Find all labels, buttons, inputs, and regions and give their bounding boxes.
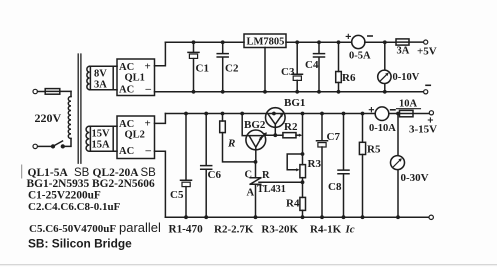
bridge rectifier QL1 bbox=[117, 59, 155, 96]
svg-text:C: C bbox=[245, 170, 253, 181]
svg-text:AC: AC bbox=[119, 85, 134, 96]
wire bbox=[70, 91, 72, 96]
ammeter PA1 0-5A bbox=[346, 34, 372, 61]
wire mid rail bbox=[165, 113, 375, 115]
220V label bbox=[35, 111, 62, 125]
svg-text:0-5A: 0-5A bbox=[349, 51, 371, 62]
svg-text:C6: C6 bbox=[208, 169, 222, 181]
terminal +5V bbox=[417, 40, 437, 58]
svg-text:C4: C4 bbox=[305, 59, 319, 71]
wire bbox=[389, 113, 400, 115]
svg-text:R5: R5 bbox=[367, 144, 381, 156]
terminal AC input bottom bbox=[33, 144, 37, 148]
wire bbox=[38, 145, 52, 147]
wire bbox=[64, 139, 71, 147]
svg-text:C7: C7 bbox=[327, 131, 341, 143]
wire top rail right of regulator bbox=[286, 41, 352, 43]
svg-text:C1: C1 bbox=[196, 63, 209, 75]
svg-text:+5V: +5V bbox=[417, 46, 437, 58]
svg-text:QL1: QL1 bbox=[125, 73, 145, 84]
wire bbox=[89, 65, 117, 67]
svg-text:C5: C5 bbox=[170, 189, 184, 201]
svg-text:LM7805: LM7805 bbox=[247, 37, 285, 48]
wire QL2 minus riser bbox=[155, 151, 166, 217]
svg-text:220V: 220V bbox=[35, 111, 62, 125]
svg-text:C3: C3 bbox=[281, 66, 295, 78]
svg-text:A: A bbox=[247, 188, 255, 199]
wire QL2 plus riser bbox=[155, 114, 166, 124]
notes text block bbox=[27, 167, 355, 251]
resistor R4 bbox=[286, 197, 306, 219]
svg-text:R4-1K: R4-1K bbox=[310, 224, 342, 236]
terminal minus 15V bbox=[429, 215, 433, 219]
svg-text:parallel: parallel bbox=[119, 220, 161, 235]
svg-text:R2-2.7K: R2-2.7K bbox=[214, 224, 254, 236]
voltmeter PV1 0-10V bbox=[378, 42, 420, 93]
ammeter PA2 0-10A bbox=[369, 107, 396, 134]
svg-text:SB: Silicon Bridge: SB: Silicon Bridge bbox=[28, 237, 132, 251]
transformer core bbox=[78, 54, 81, 163]
transistor BG1 bbox=[266, 97, 306, 135]
junction bbox=[383, 40, 387, 44]
wire R3 branch vertical bbox=[301, 112, 305, 165]
wire R3 to R4 bbox=[301, 178, 305, 198]
transformer winding 15V 15A bbox=[86, 126, 89, 151]
svg-text:AC: AC bbox=[119, 119, 134, 130]
wire bottom rail section1 bbox=[155, 91, 424, 93]
svg-text:AC: AC bbox=[119, 146, 134, 157]
svg-text:R6: R6 bbox=[342, 72, 356, 84]
svg-text:AC: AC bbox=[119, 62, 134, 73]
resistor R (R1-470) bbox=[220, 112, 254, 162]
terminal minus 5V bbox=[424, 85, 431, 94]
svg-text:0-10A: 0-10A bbox=[369, 123, 396, 134]
fuse 10A bbox=[397, 99, 430, 117]
wire bbox=[38, 91, 46, 93]
capacitor C3 bbox=[281, 40, 303, 93]
svg-text:15A: 15A bbox=[92, 140, 111, 151]
resistor R6 bbox=[336, 40, 356, 93]
svg-text:0-10V: 0-10V bbox=[393, 72, 420, 83]
wire regulator ground pin bbox=[263, 48, 267, 94]
capacitor C1 bbox=[188, 40, 209, 93]
resistor R2 bbox=[283, 121, 302, 138]
svg-text:C1-25V2200uF: C1-25V2200uF bbox=[28, 190, 101, 202]
capacitor C4 bbox=[305, 40, 325, 93]
svg-text:R2: R2 bbox=[284, 121, 298, 133]
wire bbox=[89, 125, 117, 127]
wire bbox=[89, 89, 117, 91]
svg-text:C5.C6-50V4700uF: C5.C6-50V4700uF bbox=[29, 223, 116, 235]
svg-text:R: R bbox=[227, 138, 235, 150]
svg-text:C8: C8 bbox=[328, 181, 342, 193]
potentiometer R3 bbox=[287, 154, 321, 178]
junction bbox=[396, 112, 400, 116]
svg-text:15V: 15V bbox=[92, 129, 111, 140]
capacitor C8 bbox=[328, 112, 349, 220]
stray mark left edge bbox=[21, 165, 23, 178]
capacitor C5 bbox=[170, 112, 192, 220]
fuse 3A bbox=[396, 39, 424, 57]
svg-text:R3-20K: R3-20K bbox=[261, 224, 298, 236]
svg-text:3A: 3A bbox=[397, 46, 410, 57]
svg-text:BG1: BG1 bbox=[284, 97, 305, 109]
fuse FU primary bbox=[45, 89, 71, 95]
svg-text:TL431: TL431 bbox=[257, 184, 286, 195]
terminal AC input top bbox=[33, 89, 37, 93]
svg-text:R1-470: R1-470 bbox=[169, 224, 204, 236]
svg-text:R: R bbox=[262, 170, 270, 181]
junction BG1 emitter node bbox=[273, 133, 277, 137]
junction node TL431 cathode bbox=[254, 160, 258, 164]
wire top rail left bbox=[165, 41, 244, 43]
label box 8V 3A bbox=[90, 66, 113, 90]
wire bbox=[89, 150, 117, 152]
svg-text:R4: R4 bbox=[286, 198, 300, 210]
transformer primary winding bbox=[68, 97, 71, 139]
capacitor C6 bbox=[201, 112, 222, 220]
svg-text:C2.C4.C6.C8-0.1uF: C2.C4.C6.C8-0.1uF bbox=[28, 201, 121, 213]
svg-text:–: – bbox=[145, 83, 152, 95]
capacitor C7 bbox=[317, 112, 341, 220]
wire BG2 collector arrow bbox=[260, 132, 267, 139]
capacitor C2 bbox=[217, 40, 239, 93]
svg-text:+: + bbox=[145, 118, 151, 130]
regulator U1 LM7805 bbox=[244, 34, 286, 48]
svg-text:C2: C2 bbox=[225, 63, 239, 75]
svg-text:QL2: QL2 bbox=[125, 130, 145, 141]
switch K bbox=[52, 141, 65, 148]
terminal 3-15V bbox=[409, 111, 437, 136]
shunt regulator TL431 bbox=[245, 162, 303, 219]
transformer winding 8V 3A bbox=[87, 66, 89, 89]
transistor BG2 bbox=[244, 119, 266, 162]
svg-text:BG2: BG2 bbox=[244, 119, 266, 131]
voltmeter PV2 0-30V bbox=[391, 114, 429, 220]
svg-text:R3: R3 bbox=[308, 158, 322, 170]
svg-text:3A: 3A bbox=[94, 80, 107, 91]
svg-text:10A: 10A bbox=[399, 99, 418, 110]
label box 15V 15A bbox=[90, 126, 113, 151]
svg-text:–: – bbox=[145, 145, 152, 157]
bridge rectifier QL2 bbox=[117, 116, 155, 159]
wire bbox=[365, 41, 396, 43]
wire bottom rail section2 bbox=[165, 216, 429, 218]
svg-text:3-15V: 3-15V bbox=[409, 124, 437, 136]
svg-text:0-30V: 0-30V bbox=[401, 172, 429, 184]
svg-text:+: + bbox=[145, 61, 151, 73]
svg-text:BG1-2N5935 BG2-2N5606: BG1-2N5935 BG2-2N5606 bbox=[27, 178, 155, 190]
bottom hairline bbox=[0, 264, 497, 266]
resistor R5 bbox=[359, 112, 381, 220]
wire BG2 base riser bbox=[240, 112, 262, 136]
svg-text:8V: 8V bbox=[94, 69, 107, 80]
wire emitter node horizontal bbox=[265, 134, 283, 136]
svg-text:Ic: Ic bbox=[345, 224, 355, 236]
wire QL1 plus riser bbox=[155, 42, 166, 65]
